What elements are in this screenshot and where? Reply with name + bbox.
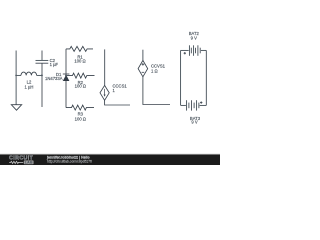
svg-text:1N4733A: 1N4733A [45,76,63,81]
svg-text:100 Ω: 100 Ω [75,116,86,121]
svg-text:100 Ω: 100 Ω [74,58,85,63]
svg-text:9 V: 9 V [191,35,197,40]
svg-text:1 µH: 1 µH [25,84,34,89]
svg-text:LAB: LAB [25,161,33,165]
svg-text:1 Ω: 1 Ω [151,68,158,73]
svg-text:9 V: 9 V [191,120,197,125]
svg-text:100 Ω: 100 Ω [75,84,86,89]
svg-text:http://circuitlab.com/c9pd5z76: http://circuitlab.com/c9pd5z76 [47,160,92,164]
svg-text:1 µF: 1 µF [50,62,59,67]
